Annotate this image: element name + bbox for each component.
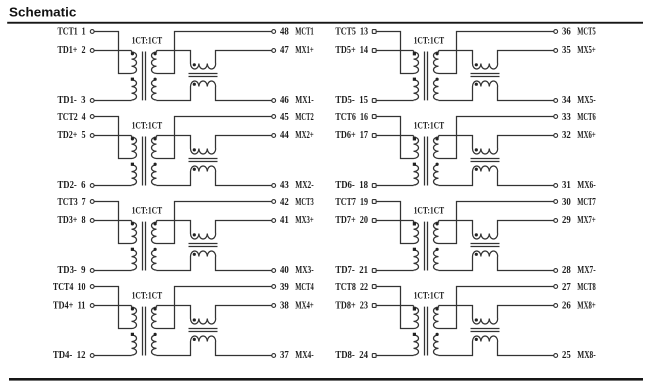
svg-text:34: 34: [562, 95, 571, 106]
svg-text:1CT:1CT: 1CT:1CT: [132, 35, 163, 45]
svg-text:1CT:1CT: 1CT:1CT: [132, 291, 163, 301]
choke L2 top winding: [191, 149, 216, 155]
svg-text:41: 41: [280, 215, 289, 226]
svg-text:MX8-: MX8-: [577, 350, 595, 361]
terminal right pin row C: [272, 354, 276, 358]
polarity dot secondary top: [154, 307, 157, 310]
wire choke bottom-right to MX- pin: [216, 257, 272, 271]
wire TD- pin stub to primary bottom: [376, 270, 413, 272]
svg-text:1CT:1CT: 1CT:1CT: [414, 35, 445, 45]
svg-text:MCT3: MCT3: [295, 197, 313, 208]
svg-text:45: 45: [280, 112, 289, 123]
wire TD- pin stub to primary bottom: [94, 100, 131, 102]
transformer T7 primary winding upper half: [414, 221, 419, 244]
svg-text:28: 28: [562, 265, 571, 276]
choke L8 core: [471, 329, 500, 332]
terminal right pin row C: [554, 354, 558, 358]
wire secondary center tap to MCT pin: [157, 32, 272, 74]
wire TCT pin stub to primary center tap: [376, 202, 413, 244]
wire choke bottom-right to MX- pin: [498, 87, 554, 101]
terminal right pin row C: [272, 184, 276, 188]
terminal right pin row A: [272, 30, 276, 34]
wire TD+ pin stub to primary top: [376, 135, 413, 137]
wire secondary top to choke top-left: [439, 221, 473, 234]
transformer T6 secondary winding lower half: [434, 165, 439, 185]
polarity dot choke top: [193, 233, 196, 236]
wire choke top-right to MX+ pin: [216, 221, 272, 234]
wire secondary top to choke top-left: [157, 136, 191, 149]
polarity dot choke top: [475, 233, 478, 236]
choke L4 top winding: [191, 319, 216, 325]
wire choke bottom-right to MX- pin: [216, 87, 272, 101]
svg-text:MX7+: MX7+: [577, 215, 596, 226]
svg-text:1CT:1CT: 1CT:1CT: [414, 206, 445, 216]
wire secondary top to choke top-left: [439, 51, 473, 64]
wire TCT pin stub to primary center tap: [94, 117, 131, 159]
terminal right pin row B: [272, 134, 276, 138]
terminal left pin row C: [372, 184, 376, 188]
svg-text:TCT7 19: TCT7 19: [335, 197, 368, 208]
transformer T2 secondary winding upper half: [152, 136, 157, 159]
terminal left pin row A: [372, 200, 376, 204]
terminal left pin row B: [372, 49, 376, 53]
terminal left pin row C: [90, 184, 94, 188]
transformer T3 primary winding upper half: [132, 221, 137, 244]
choke L6 bottom winding: [473, 166, 498, 171]
svg-text:MX8+: MX8+: [577, 300, 596, 311]
wire secondary bottom to choke bottom-left: [439, 87, 473, 101]
transformer T4 secondary winding upper half: [152, 306, 157, 329]
wire TD- pin stub to primary bottom: [94, 355, 131, 357]
terminal right pin row A: [554, 115, 558, 119]
wire secondary top to choke top-left: [439, 306, 473, 319]
choke L1 bottom winding: [191, 81, 216, 87]
polarity mark primary lower (square): [131, 163, 134, 166]
terminal right pin row B: [554, 134, 558, 138]
svg-text:MCT1: MCT1: [295, 27, 313, 38]
wire TD+ pin stub to primary top: [94, 220, 131, 222]
svg-text:44: 44: [280, 130, 289, 141]
svg-text:42: 42: [280, 197, 289, 208]
transformer T2 primary winding lower half: [132, 165, 137, 185]
svg-text:48: 48: [280, 27, 289, 38]
wire secondary center tap to MCT pin: [157, 287, 272, 329]
terminal right pin row C: [554, 184, 558, 188]
polarity dot choke top: [475, 63, 478, 66]
terminal left pin row A: [90, 30, 94, 34]
choke L3 core: [189, 244, 218, 247]
transformer T5 primary winding lower half: [414, 80, 419, 100]
terminal left pin row B: [90, 304, 94, 308]
polarity mark primary lower (square): [131, 78, 134, 81]
terminal right pin row B: [272, 219, 276, 223]
terminal right pin row C: [554, 269, 558, 273]
svg-text:MX7-: MX7-: [577, 265, 595, 276]
svg-text:27: 27: [562, 282, 571, 293]
wire choke top-right to MX+ pin: [498, 136, 554, 149]
svg-text:1CT:1CT: 1CT:1CT: [414, 120, 445, 130]
terminal right pin row A: [554, 200, 558, 204]
terminal right pin row A: [272, 285, 276, 289]
svg-text:31: 31: [562, 180, 571, 191]
svg-text:29: 29: [562, 215, 571, 226]
wire secondary bottom to choke bottom-left: [157, 87, 191, 101]
wire TD- pin stub to primary bottom: [94, 185, 131, 187]
transformer T2 core: [143, 137, 146, 186]
wire TD- pin stub to primary bottom: [376, 185, 413, 187]
svg-text:TD3+ 8: TD3+ 8: [58, 215, 86, 226]
terminal right pin row C: [272, 269, 276, 273]
top rule: [7, 22, 643, 24]
transformer T8 primary winding upper half: [414, 306, 419, 329]
polarity dot primary top: [131, 222, 134, 225]
choke L7 top winding: [473, 234, 498, 240]
terminal left pin row B: [372, 134, 376, 138]
svg-text:TCT8 22: TCT8 22: [335, 282, 368, 293]
svg-text:1CT:1CT: 1CT:1CT: [414, 291, 445, 301]
transformer T6 secondary winding upper half: [434, 136, 439, 159]
transformer T1 secondary winding upper half: [152, 51, 157, 74]
svg-text:MCT4: MCT4: [295, 282, 313, 293]
svg-text:MX5+: MX5+: [577, 45, 596, 56]
transformer T5 secondary winding upper half: [434, 51, 439, 74]
transformer T6 primary winding upper half: [414, 136, 419, 159]
svg-text:33: 33: [562, 112, 571, 123]
transformer T6 core: [425, 137, 428, 186]
polarity dot primary top: [413, 52, 416, 55]
terminal left pin row C: [90, 354, 94, 358]
wire secondary center tap to MCT pin: [439, 32, 554, 74]
svg-text:TD4+ 11: TD4+ 11: [53, 300, 86, 311]
svg-text:MCT8: MCT8: [577, 282, 595, 293]
polarity dot choke bottom: [475, 168, 478, 171]
svg-text:MCT2: MCT2: [295, 112, 313, 123]
svg-text:MX4+: MX4+: [295, 300, 314, 311]
svg-text:MX3-: MX3-: [295, 265, 313, 276]
choke L3 bottom winding: [191, 251, 216, 257]
transformer T3 core: [143, 222, 146, 271]
choke L4 bottom winding: [191, 336, 216, 342]
polarity dot choke top: [193, 148, 196, 151]
wire secondary top to choke top-left: [157, 306, 191, 319]
transformer T7 secondary winding lower half: [434, 250, 439, 270]
terminal right pin row B: [272, 304, 276, 308]
polarity dot secondary top: [436, 137, 439, 140]
wire choke top-right to MX+ pin: [498, 306, 554, 319]
transformer T5 secondary winding lower half: [434, 80, 439, 100]
polarity mark primary lower (square): [413, 248, 416, 251]
polarity dot choke top: [475, 148, 478, 151]
wire choke top-right to MX+ pin: [216, 136, 272, 149]
choke L4 core: [189, 329, 218, 332]
svg-text:43: 43: [280, 180, 289, 191]
terminal left pin row B: [90, 134, 94, 138]
wire secondary bottom to choke bottom-left: [157, 257, 191, 271]
transformer T7 core: [425, 222, 428, 271]
svg-text:TD2- 6: TD2- 6: [58, 180, 86, 191]
svg-text:TCT3 7: TCT3 7: [58, 197, 86, 208]
svg-text:TD1+ 2: TD1+ 2: [58, 45, 86, 56]
transformer T1 primary winding upper half: [132, 51, 137, 74]
terminal left pin row A: [372, 30, 376, 34]
choke L3 top winding: [191, 234, 216, 240]
svg-text:TD6- 18: TD6- 18: [335, 180, 368, 191]
wire TD+ pin stub to primary top: [376, 50, 413, 52]
svg-text:MX1+: MX1+: [295, 45, 314, 56]
svg-text:MX6+: MX6+: [577, 130, 596, 141]
wire TCT pin stub to primary center tap: [376, 117, 413, 159]
wire TD+ pin stub to primary top: [94, 50, 131, 52]
svg-text:MCT7: MCT7: [577, 197, 595, 208]
svg-text:TD2+ 5: TD2+ 5: [58, 130, 86, 141]
terminal right pin row A: [554, 30, 558, 34]
svg-text:MCT6: MCT6: [577, 112, 595, 123]
polarity dot choke bottom: [193, 253, 196, 256]
transformer T4 secondary winding lower half: [152, 335, 157, 355]
wire choke top-right to MX+ pin: [216, 306, 272, 319]
svg-text:46: 46: [280, 95, 289, 106]
choke L8 top winding: [473, 319, 498, 325]
terminal left pin row A: [90, 285, 94, 289]
transformer T1 core: [143, 52, 146, 101]
choke L2 bottom winding: [191, 166, 216, 171]
wire choke top-right to MX+ pin: [216, 51, 272, 64]
svg-text:TCT5 13: TCT5 13: [335, 27, 368, 38]
transformer T3 secondary winding upper half: [152, 221, 157, 244]
svg-text:30: 30: [562, 197, 571, 208]
polarity dot choke bottom: [475, 253, 478, 256]
wire TD+ pin stub to primary top: [376, 220, 413, 222]
transformer T8 core: [425, 307, 428, 356]
polarity dot choke top: [475, 318, 478, 321]
terminal left pin row A: [372, 285, 376, 289]
polarity dot choke bottom: [475, 83, 478, 86]
wire TD- pin stub to primary bottom: [376, 100, 413, 102]
choke L2 core: [189, 159, 218, 162]
bottom rule: [9, 378, 643, 381]
svg-text:TCT1 1: TCT1 1: [58, 27, 86, 38]
wire choke bottom-right to MX- pin: [216, 172, 272, 186]
svg-text:TD4- 12: TD4- 12: [53, 350, 86, 361]
terminal left pin row B: [372, 304, 376, 308]
polarity mark primary lower (square): [131, 333, 134, 336]
polarity dot primary top: [131, 307, 134, 310]
transformer T5 core: [425, 52, 428, 101]
transformer T8 primary winding lower half: [414, 335, 419, 355]
svg-text:MX4-: MX4-: [295, 350, 313, 361]
transformer T8 secondary winding lower half: [434, 335, 439, 355]
svg-text:TCT4 10: TCT4 10: [53, 282, 86, 293]
terminal right pin row B: [554, 219, 558, 223]
terminal right pin row C: [554, 99, 558, 103]
polarity dot secondary top: [154, 52, 157, 55]
transformer T3 secondary winding lower half: [152, 250, 157, 270]
wire secondary top to choke top-left: [157, 221, 191, 234]
terminal left pin row B: [90, 219, 94, 223]
svg-text:38: 38: [280, 300, 289, 311]
wire choke top-right to MX+ pin: [498, 221, 554, 234]
terminal left pin row B: [372, 219, 376, 223]
choke L5 core: [471, 74, 500, 77]
polarity dot secondary lower: [154, 163, 157, 166]
choke L5 top winding: [473, 64, 498, 70]
svg-text:40: 40: [280, 265, 289, 276]
choke L6 core: [471, 159, 500, 162]
wire TD+ pin stub to primary top: [376, 305, 413, 307]
svg-text:TCT6 16: TCT6 16: [335, 112, 368, 123]
svg-text:TD3- 9: TD3- 9: [58, 265, 86, 276]
polarity dot primary top: [413, 222, 416, 225]
choke L8 bottom winding: [473, 336, 498, 342]
svg-text:39: 39: [280, 282, 289, 293]
choke L7 core: [471, 244, 500, 247]
svg-text:MX1-: MX1-: [295, 95, 313, 106]
wire secondary center tap to MCT pin: [439, 117, 554, 159]
transformer T3 primary winding lower half: [132, 250, 137, 270]
polarity dot secondary top: [154, 137, 157, 140]
polarity dot choke bottom: [193, 168, 196, 171]
choke L5 bottom winding: [473, 81, 498, 87]
polarity mark primary lower (square): [131, 248, 134, 251]
wire secondary top to choke top-left: [157, 51, 191, 64]
polarity dot secondary lower: [436, 78, 439, 81]
choke L1 top winding: [191, 64, 216, 70]
svg-text:TD5- 15: TD5- 15: [335, 95, 368, 106]
wire TD- pin stub to primary bottom: [94, 270, 131, 272]
svg-text:TCT2 4: TCT2 4: [58, 112, 86, 123]
polarity dot secondary top: [436, 222, 439, 225]
polarity dot choke top: [193, 63, 196, 66]
svg-text:MX5-: MX5-: [577, 95, 595, 106]
polarity dot primary top: [413, 137, 416, 140]
wire TD+ pin stub to primary top: [94, 135, 131, 137]
terminal left pin row A: [90, 200, 94, 204]
wire TD+ pin stub to primary top: [94, 305, 131, 307]
svg-text:MX3+: MX3+: [295, 215, 314, 226]
svg-text:Schematic: Schematic: [9, 5, 76, 19]
svg-text:1CT:1CT: 1CT:1CT: [132, 206, 163, 216]
polarity dot secondary top: [436, 52, 439, 55]
wire secondary center tap to MCT pin: [157, 117, 272, 159]
transformer T4 core: [143, 307, 146, 356]
polarity dot primary top: [413, 307, 416, 310]
terminal left pin row C: [372, 99, 376, 103]
polarity dot choke bottom: [475, 338, 478, 341]
polarity dot primary top: [131, 137, 134, 140]
wire TCT pin stub to primary center tap: [376, 32, 413, 74]
transformer T5 primary winding upper half: [414, 51, 419, 74]
wire choke top-right to MX+ pin: [498, 51, 554, 64]
polarity dot choke bottom: [193, 338, 196, 341]
svg-text:47: 47: [280, 45, 289, 56]
terminal right pin row A: [272, 200, 276, 204]
transformer T4 primary winding upper half: [132, 306, 137, 329]
wire secondary center tap to MCT pin: [439, 287, 554, 329]
wire choke bottom-right to MX- pin: [498, 172, 554, 186]
terminal left pin row B: [90, 49, 94, 53]
svg-text:MX2+: MX2+: [295, 130, 314, 141]
wire TCT pin stub to primary center tap: [94, 287, 131, 329]
svg-text:35: 35: [562, 45, 571, 56]
polarity dot secondary top: [154, 222, 157, 225]
terminal left pin row C: [372, 354, 376, 358]
choke L6 top winding: [473, 149, 498, 155]
polarity dot secondary lower: [154, 333, 157, 336]
terminal left pin row A: [90, 115, 94, 119]
polarity dot secondary lower: [436, 163, 439, 166]
polarity dot choke bottom: [193, 83, 196, 86]
svg-text:36: 36: [562, 27, 571, 38]
terminal right pin row A: [554, 285, 558, 289]
svg-text:26: 26: [562, 300, 571, 311]
wire secondary bottom to choke bottom-left: [439, 257, 473, 271]
transformer T7 secondary winding upper half: [434, 221, 439, 244]
svg-text:TD8+ 23: TD8+ 23: [335, 300, 368, 311]
svg-text:1CT:1CT: 1CT:1CT: [132, 120, 163, 130]
svg-text:TD6+ 17: TD6+ 17: [335, 130, 368, 141]
transformer T2 primary winding upper half: [132, 136, 137, 159]
wire TCT pin stub to primary center tap: [376, 287, 413, 329]
polarity mark primary lower (square): [413, 163, 416, 166]
svg-text:32: 32: [562, 130, 571, 141]
polarity dot secondary lower: [154, 248, 157, 251]
transformer T6 primary winding lower half: [414, 165, 419, 185]
svg-text:TD5+ 14: TD5+ 14: [335, 45, 368, 56]
transformer T1 primary winding lower half: [132, 80, 137, 100]
svg-text:TD1- 3: TD1- 3: [58, 95, 86, 106]
terminal right pin row B: [554, 304, 558, 308]
transformer T7 primary winding lower half: [414, 250, 419, 270]
svg-text:25: 25: [562, 350, 571, 361]
wire secondary top to choke top-left: [439, 136, 473, 149]
choke L7 bottom winding: [473, 251, 498, 257]
svg-text:TD7- 21: TD7- 21: [335, 265, 368, 276]
wire secondary center tap to MCT pin: [439, 202, 554, 244]
terminal left pin row C: [372, 269, 376, 273]
wire TCT pin stub to primary center tap: [94, 32, 131, 74]
wire secondary bottom to choke bottom-left: [439, 172, 473, 186]
wire choke bottom-right to MX- pin: [498, 342, 554, 356]
choke L1 core: [189, 74, 218, 77]
svg-text:37: 37: [280, 350, 289, 361]
wire choke bottom-right to MX- pin: [216, 342, 272, 356]
svg-text:MCT5: MCT5: [577, 27, 595, 38]
transformer T4 primary winding lower half: [132, 335, 137, 355]
wire TCT pin stub to primary center tap: [94, 202, 131, 244]
svg-text:MX6-: MX6-: [577, 180, 595, 191]
polarity mark primary lower (square): [413, 78, 416, 81]
wire secondary center tap to MCT pin: [157, 202, 272, 244]
polarity dot choke top: [193, 318, 196, 321]
terminal left pin row C: [90, 269, 94, 273]
polarity dot secondary lower: [436, 248, 439, 251]
terminal right pin row B: [554, 49, 558, 53]
terminal right pin row A: [272, 115, 276, 119]
svg-text:TD7+ 20: TD7+ 20: [335, 215, 368, 226]
polarity dot secondary lower: [436, 333, 439, 336]
polarity dot secondary top: [436, 307, 439, 310]
wire secondary bottom to choke bottom-left: [439, 342, 473, 356]
svg-text:MX2-: MX2-: [295, 180, 313, 191]
transformer T1 secondary winding lower half: [151, 80, 156, 100]
terminal left pin row C: [90, 99, 94, 103]
terminal left pin row A: [372, 115, 376, 119]
transformer T2 secondary winding lower half: [152, 165, 157, 185]
wire TD- pin stub to primary bottom: [376, 355, 413, 357]
polarity dot primary top: [131, 52, 134, 55]
wire secondary bottom to choke bottom-left: [157, 342, 191, 356]
wire secondary bottom to choke bottom-left: [157, 172, 191, 186]
